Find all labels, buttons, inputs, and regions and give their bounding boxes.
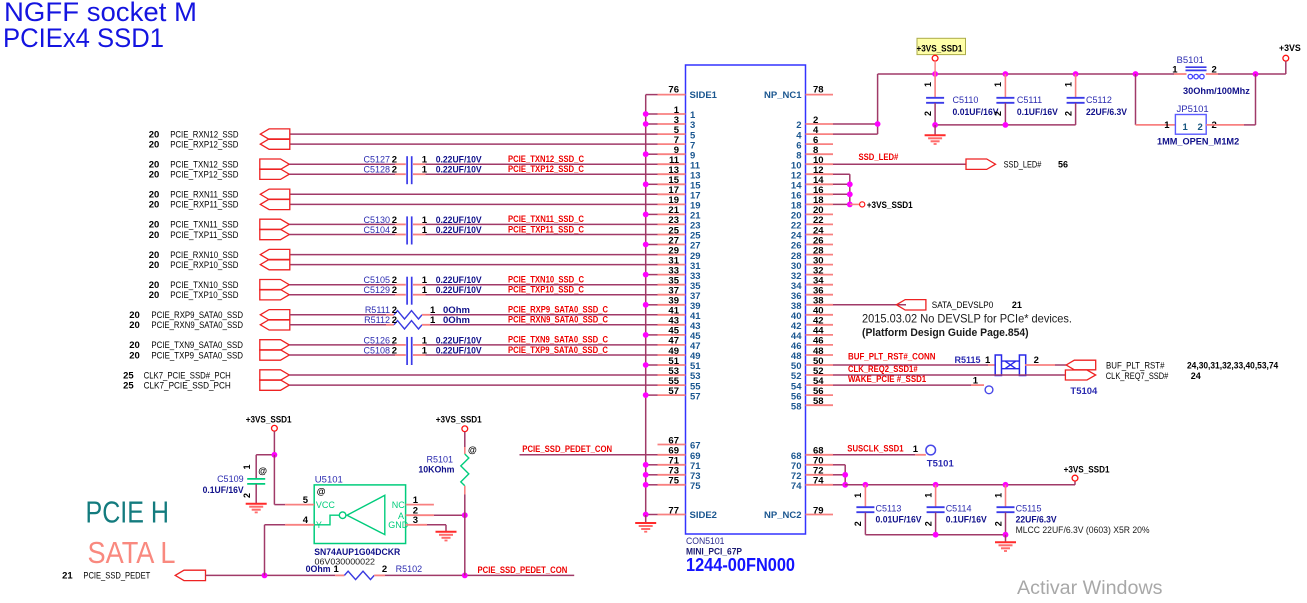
connector pin 34 xyxy=(791,276,833,292)
connector pin 47 xyxy=(658,336,701,352)
label PCIE_RXN12_SSD xyxy=(149,129,239,140)
svg-text:C5111: C5111 xyxy=(1017,95,1042,105)
connector pin 4 xyxy=(796,125,833,141)
connector pin 51 xyxy=(658,356,702,372)
capacitor C5127 labels xyxy=(363,155,481,166)
off-page connector (output pair) pins 47/49 xyxy=(260,340,290,361)
wire BUF_PLT_RST#_CONN (pin 50) to R5115 xyxy=(833,364,996,366)
connector pin 40 xyxy=(791,306,833,322)
svg-text:0.22UF/10V: 0.22UF/10V xyxy=(436,335,482,345)
svg-text:T5104: T5104 xyxy=(1070,386,1098,397)
svg-text:0.22UF/10V: 0.22UF/10V xyxy=(436,225,482,235)
svg-text:0.1UF/16V: 0.1UF/16V xyxy=(203,485,244,495)
connector pin 49 xyxy=(658,346,701,362)
svg-text:2: 2 xyxy=(993,521,1003,526)
connector pin 30 xyxy=(791,255,833,271)
svg-text:79: 79 xyxy=(813,505,824,516)
sheet title xyxy=(3,0,197,53)
U5101 pin 3 GND xyxy=(406,515,446,531)
connector pin 45 xyxy=(658,326,702,342)
connector pin 57 xyxy=(658,386,701,402)
label WAKE_PCIE #_SSD1 xyxy=(848,374,926,384)
svg-text:C5108: C5108 xyxy=(363,345,390,355)
svg-text:PCIE_SSD_PEDET_CON: PCIE_SSD_PEDET_CON xyxy=(478,565,568,575)
label PCIE_TXP12_SSD_C xyxy=(508,164,585,174)
svg-text:1: 1 xyxy=(1183,122,1189,133)
wire CLK7_PCIE_SSD#_PCH (pin 53) xyxy=(289,374,657,376)
connector pin 22 xyxy=(791,215,833,231)
svg-text:PCIE_TXP12_SSD: PCIE_TXP12_SSD xyxy=(170,170,239,180)
connector pin 53 xyxy=(658,366,701,382)
svg-text:T5101: T5101 xyxy=(927,459,955,470)
svg-text:PCIE_TXN12_SSD: PCIE_TXN12_SSD xyxy=(170,160,239,170)
off-page connector SATA_DEVSLP0 (input) xyxy=(896,300,1022,311)
capacitor C5113 0.01UF/16V xyxy=(853,485,921,535)
svg-text:PCIE_TXN10_SSD: PCIE_TXN10_SSD xyxy=(170,280,239,290)
svg-text:PCIE_RXP12_SSD: PCIE_RXP12_SSD xyxy=(170,139,239,149)
wire R5101 to A / PEDET_CON xyxy=(464,494,466,575)
svg-text:PCIE_TXP10_SSD_C: PCIE_TXP10_SSD_C xyxy=(508,285,585,295)
connector pin 5 xyxy=(658,125,697,141)
connector pin 73 xyxy=(658,466,701,482)
svg-text:C5105: C5105 xyxy=(363,275,390,285)
svg-text:+3VS_SSD1: +3VS_SSD1 xyxy=(436,414,482,424)
wire PCIE_TXP12_SSD to capacitor C5128 xyxy=(289,173,406,175)
label BUF_PLT_RST#_CONN xyxy=(848,352,936,362)
svg-text:1: 1 xyxy=(853,493,863,498)
svg-text:VCC: VCC xyxy=(316,500,336,510)
connector pin 12 xyxy=(791,165,833,181)
connector pin 19 xyxy=(658,195,701,211)
svg-text:CON5101: CON5101 xyxy=(686,536,725,547)
power symbol +3VS_SSD1 (R5101) xyxy=(436,414,482,447)
wire PCIE_RXN11_SSD (pin 17) xyxy=(290,193,658,195)
svg-text:74: 74 xyxy=(813,476,824,487)
svg-text:C5127: C5127 xyxy=(363,155,390,165)
svg-text:PCIE_SSD_PEDET_CON: PCIE_SSD_PEDET_CON xyxy=(522,444,612,454)
svg-text:2: 2 xyxy=(392,225,397,236)
connector pin 18 xyxy=(791,195,833,211)
connector pin 71 xyxy=(658,456,702,472)
connector pin 74 xyxy=(791,476,833,492)
svg-text:C5104: C5104 xyxy=(363,225,390,235)
connector pin 2 xyxy=(796,115,833,131)
svg-text:PCIE_TXP9_SATA0_SSD_C: PCIE_TXP9_SATA0_SSD_C xyxy=(508,345,609,355)
label PCIE_SSD_PEDET_CON (bottom) xyxy=(478,565,568,575)
note text DEVSLP xyxy=(862,313,1072,340)
svg-text:56: 56 xyxy=(1058,160,1068,170)
ground bus junction pin 75 xyxy=(643,482,658,488)
ground symbol (connector ground bus) xyxy=(635,515,656,532)
decoupling rail wire xyxy=(845,482,1075,488)
connector pin 54 xyxy=(791,376,833,392)
off-page connector BUF_PLT_RST# (input) xyxy=(1066,360,1278,370)
connector pin 25 xyxy=(658,225,702,241)
capacitor C5111 0.1UF/16V xyxy=(993,74,1058,125)
resistor R5101 10KOhm xyxy=(418,445,477,495)
connector pin 23 xyxy=(658,215,701,231)
svg-text:24,30,31,32,33,40,53,74: 24,30,31,32,33,40,53,74 xyxy=(1187,360,1278,370)
off-page connector (output pair) pins 23/25 xyxy=(260,219,290,240)
svg-text:SUSCLK_SSD1: SUSCLK_SSD1 xyxy=(847,444,903,454)
svg-text:2: 2 xyxy=(1198,122,1203,133)
connector pin 52 xyxy=(791,366,833,382)
svg-text:1: 1 xyxy=(923,493,933,498)
off-page connector (input pair) pins 17/19 xyxy=(260,189,290,210)
svg-text:C5112: C5112 xyxy=(1086,95,1112,105)
svg-text:R5112: R5112 xyxy=(364,315,390,325)
connector pin 33 xyxy=(658,265,701,281)
wire PCIE_TXN9_SATA0_SSD to capacitor C5126 xyxy=(289,344,406,346)
svg-text:SN74AUP1G04DCKR: SN74AUP1G04DCKR xyxy=(314,547,400,557)
wire WAKE_PCIE#_SSD1 (pin 54) xyxy=(833,384,984,386)
off-page connector (output pair) pins 11/13 xyxy=(260,159,290,179)
svg-text:0.01UF/16V: 0.01UF/16V xyxy=(876,515,922,525)
wire PCIE_TXN10_SSD_C from capacitor C5105 to pin 35 xyxy=(413,284,658,286)
label PCIE_RXN11_SSD xyxy=(149,190,239,201)
svg-text:PCIE_TXP9_SATA0_SSD: PCIE_TXP9_SATA0_SSD xyxy=(151,350,243,360)
svg-text:4: 4 xyxy=(303,515,309,526)
label PCIE_TXP12_SSD xyxy=(149,170,239,181)
svg-text:77: 77 xyxy=(668,505,679,516)
svg-text:1: 1 xyxy=(923,82,933,87)
connector pin 20 xyxy=(791,205,833,221)
label PCIE_RXP11_SSD xyxy=(149,200,239,211)
wire A input to R5101 xyxy=(434,512,468,518)
connector pin 39 xyxy=(658,296,701,312)
wire PCIE_TXN10_SSD to capacitor C5105 xyxy=(289,284,406,286)
label SATA L xyxy=(88,535,176,570)
svg-text:78: 78 xyxy=(813,85,824,96)
svg-text:BUF_PLT_RST#: BUF_PLT_RST# xyxy=(1106,360,1165,370)
connector pin 77 xyxy=(658,505,686,516)
svg-text:C5115: C5115 xyxy=(1016,504,1042,514)
power rail +3VS_SSD1 (top) xyxy=(878,71,1286,77)
label PCIE_SSD_PEDET_CON (pin 69) xyxy=(522,444,612,454)
wire PCIE_RXN9_SATA0_SSD to resistor R5112 xyxy=(290,324,395,326)
svg-text:@: @ xyxy=(258,466,267,476)
svg-text:+3VS_SSD1: +3VS_SSD1 xyxy=(1064,465,1110,475)
svg-text:+3VS_SSD1: +3VS_SSD1 xyxy=(867,200,913,210)
svg-text:BUF_PLT_RST#_CONN: BUF_PLT_RST#_CONN xyxy=(848,352,936,362)
wire PCIE_RXN9_SATA0_SSD_C from R5112 to pin 43 xyxy=(422,324,658,326)
wire VCC branch xyxy=(256,452,285,505)
svg-text:1: 1 xyxy=(413,495,419,506)
U5101 pin 4 Y xyxy=(285,515,314,526)
wire PCIE_TXP9_SATA0_SSD_C from capacitor C5108 to pin 49 xyxy=(413,354,658,356)
svg-text:B5101: B5101 xyxy=(1177,55,1204,66)
connector pin 17 xyxy=(658,185,701,201)
connector pin 76 SIDE1 xyxy=(658,85,686,96)
wire PCIE_TXP9_SATA0_SSD to capacitor C5108 xyxy=(289,354,406,356)
label PCIE_TXN9_SATA0_SSD xyxy=(129,340,243,351)
ground bus junction pin 73 xyxy=(643,472,658,478)
connector pin 78 NP_NC1 xyxy=(806,85,834,96)
label PCIE_RXN9_SATA0_SSD xyxy=(129,320,243,331)
capacitor C5130/C5104 plates xyxy=(407,216,412,244)
svg-text:Y: Y xyxy=(316,520,322,530)
connector pin 58 xyxy=(791,396,833,412)
wire PCIE_TXP10_SSD_C from capacitor C5129 to pin 37 xyxy=(413,294,658,296)
resistor R5115 (network symbol) xyxy=(954,355,1038,376)
wire SUSCLK_SSD1 (pin 68) xyxy=(833,454,926,456)
capacitor C5126 labels xyxy=(363,335,481,346)
wire rail to JP5101 pin 1 xyxy=(1136,74,1176,125)
ground bus junction pin 39 xyxy=(643,302,658,308)
connector pin 41 xyxy=(658,306,702,322)
svg-text:0.22UF/10V: 0.22UF/10V xyxy=(436,285,482,295)
wire PCIE_TXN12_SSD to capacitor C5127 xyxy=(289,163,406,165)
power symbol +3VS xyxy=(1279,43,1301,74)
connector pin 21 xyxy=(658,205,702,221)
svg-text:58: 58 xyxy=(791,401,802,412)
svg-text:0Ohm: 0Ohm xyxy=(443,305,470,315)
svg-text:1: 1 xyxy=(1172,65,1178,76)
label PCIE_RXP10_SSD xyxy=(149,260,239,271)
svg-text:3: 3 xyxy=(413,515,418,526)
ground bus junction pin 77 xyxy=(643,512,658,518)
svg-text:PCIEx4 SSD1: PCIEx4 SSD1 xyxy=(3,23,164,53)
wire PCIE_RXP10_SSD (pin 31) xyxy=(290,264,658,266)
svg-text:R5102: R5102 xyxy=(396,564,423,574)
svg-text:0.01UF/16V: 0.01UF/16V xyxy=(953,107,999,117)
connector pin 43 xyxy=(658,316,701,332)
svg-text:1: 1 xyxy=(422,345,428,356)
ground symbol (C5110 bank) xyxy=(925,125,946,144)
wire pins 12-18 to +3VS_SSD1 tap xyxy=(833,174,859,207)
power symbol +3VS_SSD1 (decoupling rail) xyxy=(1064,465,1110,485)
label PCIE_TXN11_SSD_C xyxy=(508,214,585,224)
svg-text:PCIE_TXN12_SSD_C: PCIE_TXN12_SSD_C xyxy=(508,154,585,164)
connector pin 42 xyxy=(791,316,833,332)
ground bus junction pin 45 xyxy=(643,332,658,338)
connector pin 36 xyxy=(791,286,833,302)
ground bus junction pin 3 xyxy=(643,121,658,127)
svg-text:C5114: C5114 xyxy=(946,504,972,514)
svg-text:2: 2 xyxy=(392,345,397,356)
svg-text:C5113: C5113 xyxy=(876,504,902,514)
svg-text:1: 1 xyxy=(985,355,991,366)
svg-text:NP_NC1: NP_NC1 xyxy=(764,90,802,101)
svg-text:SIDE2: SIDE2 xyxy=(690,510,717,521)
svg-text:PCIE_TXN9_SATA0_SSD: PCIE_TXN9_SATA0_SSD xyxy=(151,340,243,350)
wire capacitor bottoms C5110-C5112 xyxy=(932,122,1075,128)
connector pin 70 xyxy=(791,456,833,472)
connector pin 31 xyxy=(658,255,702,271)
connector pin 24 xyxy=(791,225,833,241)
svg-text:2: 2 xyxy=(853,521,863,526)
wire pins 70/72/74 to decoupling rail xyxy=(833,465,848,488)
capacitor C5109 0.1UF/16V xyxy=(203,455,268,503)
svg-text:+3VS_SSD1: +3VS_SSD1 xyxy=(917,43,963,53)
svg-text:PCIE_TXN10_SSD_C: PCIE_TXN10_SSD_C xyxy=(508,275,585,285)
connector pin 68 xyxy=(791,446,833,462)
label CLK7_PCIE_SSD#_PCH xyxy=(123,370,231,381)
wire PCIE_TXP10_SSD to capacitor C5129 xyxy=(289,294,406,296)
U5101 pin 5 VCC xyxy=(285,495,314,506)
connector pin 9 xyxy=(658,145,696,161)
svg-text:C5109: C5109 xyxy=(217,474,244,484)
svg-text:0.22UF/10V: 0.22UF/10V xyxy=(436,275,482,285)
svg-text:74: 74 xyxy=(791,481,802,492)
svg-text:CLK_REQ2_SSD1#: CLK_REQ2_SSD1# xyxy=(848,364,918,374)
wire CLK7_PCIE_SSD_PCH (pin 55) xyxy=(289,384,657,386)
svg-text:PCIE H: PCIE H xyxy=(86,495,170,530)
svg-text:06V030000022: 06V030000022 xyxy=(315,557,376,567)
svg-text:C5110: C5110 xyxy=(953,95,979,105)
svg-text:C5129: C5129 xyxy=(363,285,390,295)
wire PCIE_TXN11_SSD_C from capacitor C5130 to pin 23 xyxy=(413,223,658,225)
connector pin 48 xyxy=(791,346,833,362)
svg-text:SATA_DEVSLP0: SATA_DEVSLP0 xyxy=(932,300,994,310)
svg-text:PCIE_RXP10_SSD: PCIE_RXP10_SSD xyxy=(170,260,239,270)
jumper JP5101 1MM_OPEN_M1M2 xyxy=(1157,104,1239,147)
capacitor C5114 0.1UF/16V xyxy=(923,485,986,535)
svg-text:1244-00FN000: 1244-00FN000 xyxy=(686,554,795,575)
label PCIE_TXN10_SSD xyxy=(149,280,239,291)
svg-text:57: 57 xyxy=(690,391,701,402)
svg-text:NC: NC xyxy=(392,500,405,510)
svg-text:SSD_LED#: SSD_LED# xyxy=(1004,160,1042,170)
wire PCIE_RXP11_SSD (pin 19) xyxy=(290,203,658,205)
ground bus junction pin 21 xyxy=(643,212,658,218)
svg-text:@: @ xyxy=(468,445,477,455)
svg-text:1: 1 xyxy=(973,376,979,387)
svg-text:25: 25 xyxy=(123,380,134,391)
svg-text:1: 1 xyxy=(242,464,252,469)
label PCIE_TXN12_SSD_C xyxy=(508,154,585,164)
capacitor C5105/C5129 plates xyxy=(407,277,412,305)
resistor R5112 0Ohm xyxy=(364,315,470,329)
wire PCIE_RXP9_SATA0_SSD to resistor R5111 xyxy=(290,314,395,316)
svg-text:2: 2 xyxy=(382,564,387,575)
connector pin 15 xyxy=(658,175,702,191)
wire R5115 to BUF_PLT_RST# connector xyxy=(1025,364,1066,366)
svg-text:PCIE_SSD_PEDET: PCIE_SSD_PEDET xyxy=(83,571,150,582)
svg-text:1: 1 xyxy=(422,225,428,236)
svg-text:2: 2 xyxy=(923,521,933,526)
off-page connector (output pair) pins 35/37 xyxy=(260,280,290,300)
label PCIE_RXN9_SATA0_SSD_C xyxy=(508,315,609,325)
svg-text:20: 20 xyxy=(149,290,160,301)
svg-text:1: 1 xyxy=(993,82,1003,87)
wire PCIE_TXN9_SATA0_SSD_C from capacitor C5126 to pin 47 xyxy=(413,344,658,346)
connector pin 13 xyxy=(658,165,701,181)
svg-text:20: 20 xyxy=(149,170,160,181)
capacitor C5110 0.01UF/16V xyxy=(923,74,999,125)
svg-text:0.22UF/10V: 0.22UF/10V xyxy=(436,165,482,175)
svg-text:PCIE_RXN11_SSD: PCIE_RXN11_SSD xyxy=(170,190,239,200)
svg-text:1: 1 xyxy=(1063,82,1073,87)
ferrite bead B5101 30Ohm/100Mhz xyxy=(1172,55,1250,96)
svg-text:PCIE_RXN9_SATA0_SSD_C: PCIE_RXN9_SATA0_SSD_C xyxy=(508,315,609,325)
power symbol +3VS_SSD1 (pins 12-18) xyxy=(860,200,913,210)
svg-text:R5111: R5111 xyxy=(365,305,390,315)
resistor R5102 0Ohm xyxy=(306,564,422,579)
svg-text:R5115: R5115 xyxy=(954,355,980,365)
connector pin 69 xyxy=(658,446,701,462)
svg-text:30Ohm/100Mhz: 30Ohm/100Mhz xyxy=(1183,86,1250,96)
svg-text:PCIE_RXP11_SSD: PCIE_RXP11_SSD xyxy=(170,200,239,210)
wire PCIE_SSD_PEDET_CON from R5102 xyxy=(385,573,574,579)
power symbol +3VS_SSD1 (yellow highlight) xyxy=(917,38,966,74)
svg-text:Activar Windows: Activar Windows xyxy=(1017,578,1163,598)
wire PCIE_RXN10_SSD (pin 29) xyxy=(290,254,658,256)
svg-text:@: @ xyxy=(317,486,326,496)
connector pin 27 xyxy=(658,235,701,251)
watermark Activar Windows xyxy=(1017,578,1163,599)
ground symbol (C5109) xyxy=(246,504,267,513)
label PCIE_TXN12_SSD xyxy=(149,160,239,171)
svg-text:+3VS_SSD1: +3VS_SSD1 xyxy=(246,414,292,424)
connector pin 67 xyxy=(658,435,701,451)
connector pin 50 xyxy=(791,356,833,372)
svg-text:22UF/6.3V: 22UF/6.3V xyxy=(1016,515,1057,525)
svg-text:SATA L: SATA L xyxy=(88,535,176,570)
svg-text:C5130: C5130 xyxy=(363,215,390,225)
svg-text:PCIE_TXN9_SATA0_SSD_C: PCIE_TXN9_SATA0_SSD_C xyxy=(508,335,609,345)
wire PCIE_RXP9_SATA0_SSD_C from R5111 to pin 41 xyxy=(422,314,658,316)
ground bus junction pin 1 xyxy=(643,111,658,117)
svg-text:24: 24 xyxy=(1191,371,1201,381)
wire SSD_LED# (pin 10) xyxy=(833,163,966,165)
connector pin 7 xyxy=(658,135,696,151)
svg-text:PCIE_TXN11_SSD: PCIE_TXN11_SSD xyxy=(170,220,239,230)
svg-text:(Platform Design Guide Page.85: (Platform Design Guide Page.854) xyxy=(862,327,1029,339)
svg-text:1: 1 xyxy=(422,165,428,176)
svg-text:0.1UF/16V: 0.1UF/16V xyxy=(1017,107,1058,117)
svg-text:20: 20 xyxy=(129,320,140,331)
wire PCIE_TXP11_SSD_C from capacitor C5104 to pin 25 xyxy=(413,234,658,236)
connector pin 1 xyxy=(658,105,697,121)
svg-text:2: 2 xyxy=(1212,65,1217,76)
off-page connector SSD_LED# (output) xyxy=(966,159,1068,170)
svg-text:2015.03.02 No DEVSLP for PCIe*: 2015.03.02 No DEVSLP for PCIe* devices. xyxy=(862,313,1072,326)
ground bus junction pin 71 xyxy=(643,462,658,468)
svg-text:CLK_REQ7_SSD#: CLK_REQ7_SSD# xyxy=(1106,371,1169,381)
connector pin 55 xyxy=(658,376,702,392)
connector pin 75 xyxy=(658,476,702,492)
svg-text:SSD_LED#: SSD_LED# xyxy=(859,152,899,162)
svg-text:CLK7_PCIE_SSD_PCH: CLK7_PCIE_SSD_PCH xyxy=(144,380,231,390)
label PCIE_RXN10_SSD xyxy=(149,250,239,261)
svg-text:JP5101: JP5101 xyxy=(1177,104,1209,115)
connector pin 32 xyxy=(791,265,833,281)
wire PCIE_TXN12_SSD_C from capacitor C5127 to pin 11 xyxy=(413,163,658,165)
label PCIE_TXP9_SATA0_SSD xyxy=(129,350,243,361)
svg-text:CLK7_PCIE_SSD#_PCH: CLK7_PCIE_SSD#_PCH xyxy=(144,370,231,380)
connector pin 6 xyxy=(796,135,833,151)
connector pin 16 xyxy=(791,185,833,201)
svg-text:0.22UF/10V: 0.22UF/10V xyxy=(436,215,482,225)
svg-text:0.22UF/10V: 0.22UF/10V xyxy=(436,345,482,355)
capacitor C5112 22UF/6.3V xyxy=(1063,74,1127,125)
capacitor C5105 labels xyxy=(363,275,481,286)
ground symbol (U5101 GND) xyxy=(436,532,457,541)
connector pin 29 xyxy=(658,245,701,261)
svg-text:76: 76 xyxy=(668,85,679,96)
wire PCIE_TXN11_SSD to capacitor C5130 xyxy=(289,223,406,225)
label PCIE_TXP11_SSD_C xyxy=(508,224,585,234)
capacitor C5129 labels xyxy=(363,285,481,296)
wire PCIE_SSD_PEDET_CON to pin 69 xyxy=(520,454,658,456)
svg-text:58: 58 xyxy=(813,396,824,407)
svg-text:MLCC 22UF/6.3V (0603) X5R 20%: MLCC 22UF/6.3V (0603) X5R 20% xyxy=(1016,525,1150,535)
svg-text:PCIE_RXN10_SSD: PCIE_RXN10_SSD xyxy=(170,250,239,260)
ground bus junction pin 9 xyxy=(643,151,658,157)
wire SATA_DEVSLP0 (pin 38) xyxy=(833,304,906,306)
label PCIE_RXP12_SSD xyxy=(149,139,239,150)
